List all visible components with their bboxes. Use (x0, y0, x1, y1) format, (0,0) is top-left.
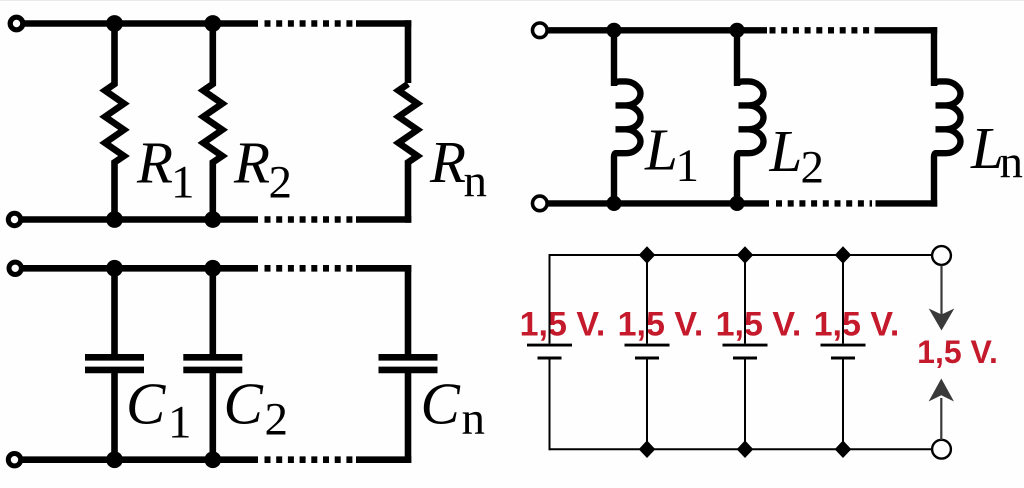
node diamond bottom 4 (835, 440, 852, 458)
node diamond bottom 3 (737, 440, 754, 458)
battery B2 plates (625, 345, 670, 358)
arrow up (929, 379, 954, 402)
node L2 bottom (729, 196, 744, 211)
battery B3 leads (744, 255, 746, 449)
wire top horizontal (22, 265, 258, 272)
svg-text:1: 1 (168, 397, 192, 449)
resistor Rn (399, 84, 418, 223)
terminal output top (932, 246, 951, 265)
svg-text:R: R (136, 130, 173, 196)
node diamond top 2 (639, 246, 656, 264)
terminal top-left of L circuit (533, 23, 548, 38)
terminal bottom-left of L circuit (533, 196, 548, 211)
wire bottom dashed (265, 456, 353, 463)
node L1 top (606, 23, 621, 38)
node L1 bottom (606, 196, 621, 211)
arrow down (940, 266, 942, 319)
svg-text:2: 2 (269, 157, 293, 209)
node C2 top (204, 260, 221, 277)
battery B4 leads (842, 255, 844, 449)
battery B3 plates (723, 345, 768, 358)
wire top horizontal (547, 27, 767, 33)
wire bottom horizontal (550, 448, 933, 450)
wire top dashed (265, 20, 353, 27)
svg-text:C: C (126, 370, 166, 436)
svg-text:2: 2 (265, 394, 289, 446)
svg-text:L: L (644, 117, 678, 183)
wire top right solid to corner (356, 265, 411, 272)
wire top horizontal (550, 254, 933, 256)
capacitor C2 (183, 268, 242, 459)
svg-text:C: C (421, 371, 461, 437)
node L2 top (729, 23, 744, 38)
terminal bottom-left of R circuit (8, 213, 20, 225)
node R1 bottom (106, 211, 123, 228)
wire top dashed (265, 265, 353, 272)
capacitor C1 (85, 268, 144, 459)
terminal top-left of R circuit (10, 17, 23, 30)
svg-text:1: 1 (676, 140, 700, 192)
node C1 top (106, 260, 123, 277)
node diamond top 3 (737, 246, 754, 264)
wire top right solid to corner (875, 27, 938, 33)
wire bottom horizontal (547, 200, 769, 206)
wire bottom dashed (776, 200, 872, 206)
wire bottom right solid to corner (876, 200, 938, 206)
capacitor Cn (379, 265, 438, 463)
terminal top-left of C circuit (9, 262, 21, 274)
node C1 bottom (106, 451, 123, 468)
battery B1 plates (527, 345, 572, 358)
svg-text:1,5 V.: 1,5 V. (814, 306, 900, 344)
node diamond top 4 (835, 246, 852, 264)
node R1 top (106, 15, 123, 32)
svg-text:1: 1 (171, 157, 195, 209)
wire bottom horizontal (22, 216, 258, 223)
wire top right solid to corner (356, 20, 411, 27)
terminal output bottom (932, 440, 951, 459)
svg-text:1,5 V.: 1,5 V. (716, 306, 802, 344)
svg-text:1,5 V.: 1,5 V. (618, 306, 704, 344)
wire top dashed (770, 27, 872, 33)
svg-text:R: R (233, 130, 270, 196)
battery B2 leads (646, 255, 648, 449)
wire bottom dashed (265, 216, 353, 223)
node diamond bottom 2 (639, 440, 656, 458)
resistor R1 (105, 24, 124, 220)
resistor R2 (203, 24, 222, 220)
node C2 bottom (204, 451, 221, 468)
svg-text:n: n (462, 393, 486, 445)
inductor Ln (934, 27, 961, 207)
svg-text:n: n (464, 156, 488, 208)
svg-text:C: C (224, 371, 264, 437)
wire top horizontal (22, 20, 258, 27)
svg-text:R: R (429, 129, 466, 195)
svg-text:2: 2 (801, 142, 825, 194)
terminal bottom-left of C circuit (8, 454, 20, 466)
inductor L2 (737, 30, 764, 203)
inductor L1 (614, 30, 641, 203)
wire bottom horizontal (22, 456, 258, 463)
battery B4 plates (821, 345, 866, 358)
svg-text:n: n (1000, 137, 1024, 189)
node R2 top (204, 15, 221, 32)
node R2 bottom (204, 211, 221, 228)
svg-text:L: L (769, 118, 803, 184)
svg-text:1,5 V.: 1,5 V. (520, 306, 606, 344)
wire bottom right solid to corner (356, 456, 411, 463)
wire right vertical upper (405, 20, 412, 83)
top border line (0, 0, 1024, 2)
wire bottom right solid to corner (356, 216, 411, 223)
svg-text:1,5 V.: 1,5 V. (917, 334, 998, 370)
battery B1 leads (549, 254, 551, 450)
